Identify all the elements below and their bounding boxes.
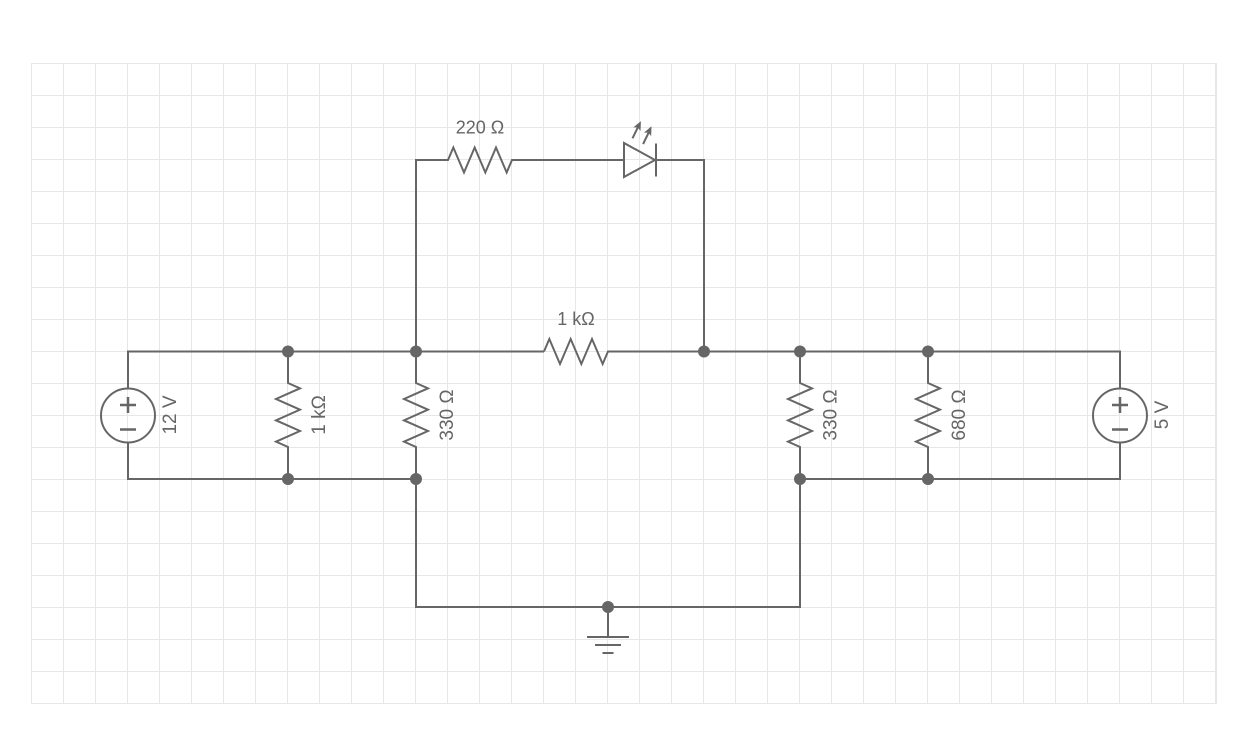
svg-text:1 kΩ: 1 kΩ [309,395,330,435]
svg-text:220 Ω: 220 Ω [456,118,505,138]
svg-text:680 Ω: 680 Ω [949,389,970,440]
svg-text:330 Ω: 330 Ω [820,389,841,440]
svg-text:1 kΩ: 1 kΩ [557,309,594,329]
svg-text:5 V: 5 V [1152,400,1173,429]
svg-text:330 Ω: 330 Ω [437,389,458,440]
svg-text:12 V: 12 V [160,395,181,434]
